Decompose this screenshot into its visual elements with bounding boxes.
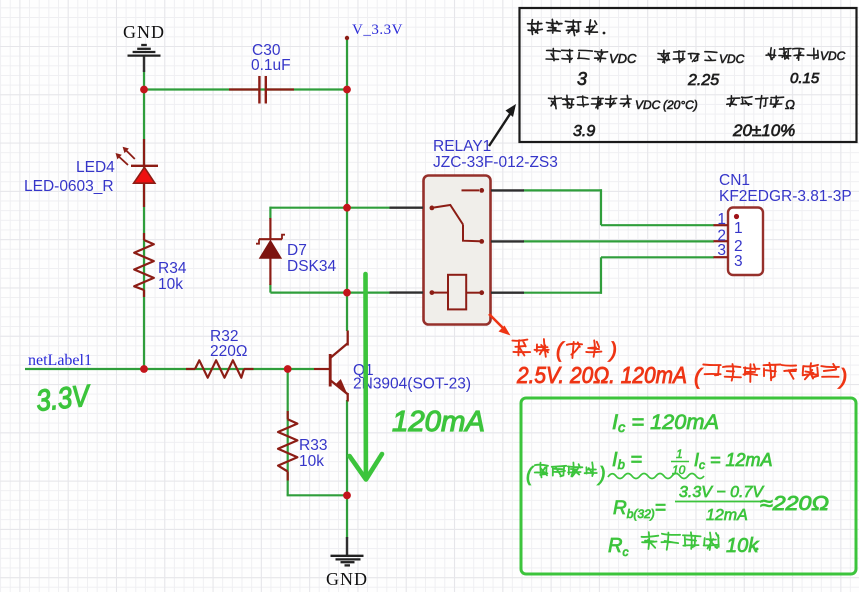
svg-text:VDC: VDC xyxy=(719,52,745,66)
svg-text:): ) xyxy=(597,464,606,486)
annotation red text line 2 xyxy=(516,362,847,389)
svg-text:R33: R33 xyxy=(299,437,327,454)
svg-text:120mA: 120mA xyxy=(392,406,485,438)
svg-text:3.3V: 3.3V xyxy=(35,379,94,418)
svg-text:20±10%: 20±10% xyxy=(732,121,795,140)
svg-text:10k: 10k xyxy=(158,276,183,293)
svg-text:Ic = 12mA: Ic = 12mA xyxy=(694,450,773,472)
svg-text:Ω: Ω xyxy=(785,97,795,112)
resistor R33 10k xyxy=(278,411,327,481)
svg-text:DSK34: DSK34 xyxy=(287,258,336,275)
power port V_3.3V xyxy=(345,22,403,40)
svg-text:≈220Ω: ≈220Ω xyxy=(760,493,829,515)
relay RELAY1 JZC-33F-012-ZS3 body xyxy=(424,138,558,325)
junction node J6 xyxy=(284,365,292,373)
resistor R32 220ohm xyxy=(186,328,254,378)
svg-text:2.25: 2.25 xyxy=(687,72,719,89)
wire left vertical (GND stub to netLabel1 wire) xyxy=(143,70,145,369)
svg-text:Ib =: Ib = xyxy=(612,449,642,472)
wire D7 loop top xyxy=(270,207,347,219)
wire junction to relay pin 1 left xyxy=(347,207,390,209)
svg-text:3: 3 xyxy=(577,69,587,89)
svg-text:1: 1 xyxy=(717,211,726,228)
junction node J5 xyxy=(140,365,148,373)
svg-text:(: ( xyxy=(556,339,565,362)
svg-text:3: 3 xyxy=(734,253,743,270)
svg-text:R34: R34 xyxy=(158,260,187,277)
wire relay right pin middle to CN1 pin2 xyxy=(524,240,715,242)
CN1 pin numbers xyxy=(717,211,742,270)
svg-text:10k: 10k xyxy=(299,453,324,470)
svg-text:KF2EDGR-3.81-3P: KF2EDGR-3.81-3P xyxy=(719,188,852,205)
svg-text:GND: GND xyxy=(123,22,165,42)
svg-text:Rc: Rc xyxy=(608,535,628,559)
svg-text:RELAY1: RELAY1 xyxy=(433,138,491,155)
wire relay right pin top to CN1 pin1 xyxy=(524,189,715,225)
svg-text:0.1uF: 0.1uF xyxy=(251,57,291,74)
svg-text:VDC: VDC xyxy=(820,49,846,63)
connector CN1 KF2EDGR-3.81-3P xyxy=(714,172,852,275)
junction node J7 xyxy=(343,492,351,500)
annotation green 120mA handwritten xyxy=(392,406,485,438)
ground bottom GND xyxy=(326,537,368,589)
svg-text:Ic = 120mA: Ic = 120mA xyxy=(612,411,719,435)
svg-text:12mA: 12mA xyxy=(706,507,748,524)
svg-text:0.15: 0.15 xyxy=(790,70,820,87)
annotation box: relay datasheet table (handwritten, black) xyxy=(520,8,857,142)
svg-text:VDC: VDC xyxy=(609,51,637,66)
wire V_3.3V rail vertical xyxy=(346,38,348,332)
annotation red text line 1 xyxy=(512,339,617,362)
annotation green 3.3V handwritten xyxy=(35,379,94,418)
LED LED4 LED-0603_R xyxy=(24,139,158,207)
svg-text:D7: D7 xyxy=(287,242,307,259)
wire relay right pin bottom to CN1 pin3 xyxy=(524,257,715,294)
diode D7 DSK34 schottky xyxy=(256,218,336,285)
net label netLabel1 xyxy=(28,352,92,369)
capacitor C30 0.1uF xyxy=(229,42,294,104)
svg-text:JZC-33F-012-ZS3: JZC-33F-012-ZS3 xyxy=(433,154,558,171)
svg-text:2N3904(SOT-23): 2N3904(SOT-23) xyxy=(353,376,471,393)
resistor R34 10k xyxy=(134,233,187,297)
junction node J2 xyxy=(343,86,351,94)
svg-text:CN1: CN1 xyxy=(719,172,750,189)
svg-text:VDC: VDC xyxy=(635,98,661,112)
wire R33 branch vertical xyxy=(287,369,347,495)
svg-text:1: 1 xyxy=(734,220,743,237)
svg-text:netLabel1: netLabel1 xyxy=(28,352,92,369)
svg-text:10k: 10k xyxy=(726,535,759,557)
wire junction to relay coil left xyxy=(347,292,390,294)
svg-text:1: 1 xyxy=(676,447,683,461)
svg-text:3.9: 3.9 xyxy=(573,123,595,140)
wire netLabel1 horizontal xyxy=(25,368,314,370)
svg-text:(20°C): (20°C) xyxy=(663,98,698,112)
svg-text:220Ω: 220Ω xyxy=(210,343,247,360)
annotation arrow from relay (red) xyxy=(489,314,511,336)
ground top GND xyxy=(123,22,165,72)
relay pin stubs xyxy=(390,190,525,292)
wire top horizontal GND-junction to V rail xyxy=(144,88,347,90)
svg-text:GND: GND xyxy=(326,569,368,589)
transistor Q1 2N3904(SOT-23) xyxy=(314,331,471,402)
svg-text:3.3V − 0.7V: 3.3V − 0.7V xyxy=(679,484,764,501)
junction node J1 xyxy=(140,86,148,94)
svg-text:3: 3 xyxy=(717,242,726,259)
annotation green current arrow xyxy=(350,274,383,480)
relay switch contact xyxy=(430,188,485,244)
svg-text:): ) xyxy=(607,339,617,362)
wire D7 loop bottom xyxy=(270,284,347,293)
wire emitter to bottom GND xyxy=(346,400,348,539)
junction node J3 xyxy=(343,204,351,212)
svg-text:LED-0603_R: LED-0603_R xyxy=(24,178,114,195)
junction node J4 xyxy=(343,289,351,297)
svg-text:(: ( xyxy=(694,364,704,389)
annotation green calculation box xyxy=(521,398,856,574)
svg-text:LED4: LED4 xyxy=(76,159,115,176)
relay coil xyxy=(430,275,485,310)
svg-text:Rb(32)=: Rb(32)= xyxy=(613,498,666,521)
svg-text:2.5V. 20Ω. 120mA: 2.5V. 20Ω. 120mA xyxy=(516,362,687,388)
annotation arrow to box (black) xyxy=(489,104,516,146)
svg-text:(: ( xyxy=(526,464,535,486)
svg-text:V_3.3V: V_3.3V xyxy=(352,22,403,38)
